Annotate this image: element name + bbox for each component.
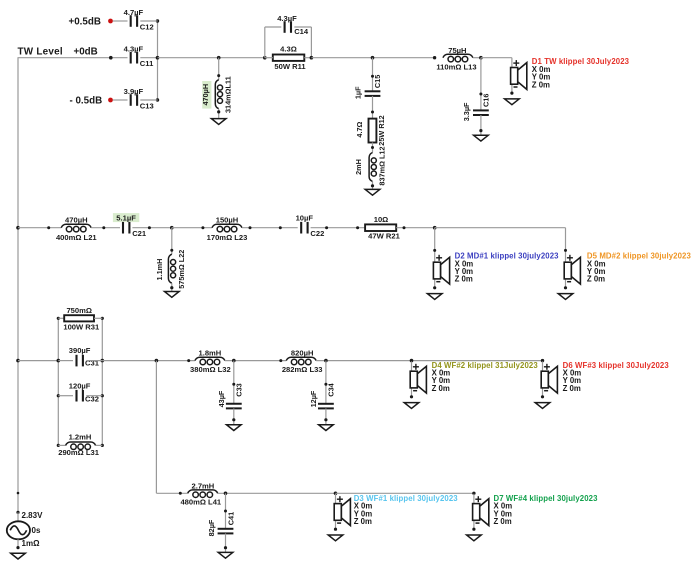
speaker D4	[404, 361, 538, 409]
wire	[480, 58, 482, 111]
svg-text:4.3µF: 4.3µF	[124, 45, 144, 54]
wire cap rail	[157, 21, 159, 100]
wire	[434, 228, 436, 253]
svg-text:480mΩ L41: 480mΩ L41	[180, 497, 221, 506]
svg-text:2mH: 2mH	[354, 159, 363, 175]
svg-text:1mΩ: 1mΩ	[22, 539, 41, 548]
wire	[310, 27, 312, 58]
svg-text:C34: C34	[327, 382, 336, 396]
node	[170, 249, 173, 252]
node	[279, 359, 282, 362]
junction	[57, 394, 60, 397]
voltage source V1	[7, 511, 43, 548]
wire	[140, 20, 157, 22]
inductor L11	[201, 76, 232, 113]
node	[47, 226, 50, 229]
wire	[156, 492, 187, 494]
wire	[480, 115, 482, 135]
node	[371, 184, 374, 187]
wire	[140, 57, 157, 59]
wire	[94, 317, 102, 319]
node	[403, 226, 406, 229]
ground	[11, 553, 26, 559]
junction	[57, 359, 61, 363]
svg-text:2.83V: 2.83V	[22, 511, 44, 520]
svg-text:1.2mH: 1.2mH	[69, 432, 92, 441]
junction	[263, 56, 267, 60]
capacitor C11	[124, 45, 154, 69]
wire	[372, 96, 374, 119]
svg-text:290mΩ L31: 290mΩ L31	[58, 448, 99, 457]
svg-text:- 0.5dB: - 0.5dB	[70, 95, 103, 106]
speaker D2	[427, 252, 559, 300]
svg-text:400mΩ L21: 400mΩ L21	[56, 233, 97, 242]
capacitor C33	[217, 383, 244, 408]
wire	[311, 227, 366, 229]
wire	[396, 227, 435, 229]
inductor L41	[180, 481, 221, 506]
junction	[433, 226, 437, 230]
svg-text:314mΩL11: 314mΩL11	[223, 76, 232, 113]
speaker D5	[558, 252, 691, 300]
svg-text:C14: C14	[294, 27, 309, 36]
svg-text:150µH: 150µH	[216, 215, 239, 224]
wire	[372, 182, 374, 190]
wire	[132, 227, 171, 229]
wire	[218, 58, 220, 80]
junction	[101, 394, 104, 397]
ground	[165, 292, 180, 298]
svg-text:1.8mH: 1.8mH	[199, 348, 222, 357]
junction	[156, 56, 160, 60]
wire	[113, 99, 128, 101]
svg-text:43µF: 43µF	[217, 390, 226, 407]
wire	[336, 492, 474, 494]
svg-text:4.7Ω: 4.7Ω	[355, 121, 364, 137]
svg-text:1µF: 1µF	[354, 86, 363, 99]
wire	[316, 360, 411, 362]
node	[371, 75, 374, 78]
node	[433, 249, 436, 252]
inductor L23	[207, 215, 248, 242]
svg-text:2.7mH: 2.7mH	[192, 481, 215, 490]
svg-text:C33: C33	[235, 383, 244, 396]
svg-text:C16: C16	[482, 94, 491, 107]
svg-text:10µF: 10µF	[296, 214, 314, 223]
node -0.5dB terminal	[108, 98, 113, 103]
junction	[324, 359, 328, 363]
inductor L32	[190, 348, 231, 374]
node	[249, 226, 252, 229]
wire	[18, 227, 61, 229]
svg-text:390µF: 390µF	[69, 346, 91, 355]
wire	[412, 360, 543, 362]
wire	[113, 20, 128, 22]
wire	[86, 395, 102, 397]
capacitor C32	[69, 381, 99, 403]
wire	[18, 57, 128, 59]
node	[541, 359, 544, 362]
svg-text:47W R21: 47W R21	[368, 231, 400, 240]
ground	[365, 189, 380, 195]
junction	[156, 98, 159, 101]
svg-text:170mΩ L23: 170mΩ L23	[207, 233, 248, 242]
wire	[435, 227, 566, 229]
wire	[265, 26, 282, 28]
node	[187, 359, 190, 362]
capacitor C12	[124, 8, 154, 32]
junction	[155, 359, 159, 363]
junction	[156, 19, 159, 22]
junction	[371, 56, 375, 60]
wire	[171, 283, 173, 291]
svg-text:Z 0m: Z 0m	[455, 275, 473, 284]
node	[217, 74, 220, 77]
node	[356, 226, 359, 229]
svg-text:100W R31: 100W R31	[63, 322, 100, 331]
inductor L31	[58, 432, 99, 457]
node +0.5dB terminal	[108, 19, 113, 24]
wire	[58, 444, 65, 446]
node	[201, 226, 204, 229]
svg-text:575mΩ L22: 575mΩ L22	[177, 250, 186, 289]
svg-text:C22: C22	[310, 229, 324, 238]
wire	[102, 360, 195, 362]
svg-text:C21: C21	[132, 229, 147, 238]
svg-text:+0.5dB: +0.5dB	[69, 16, 101, 27]
node	[324, 418, 327, 421]
svg-text:4.7µF: 4.7µF	[124, 8, 144, 17]
node	[232, 418, 235, 421]
svg-text:Z 0m: Z 0m	[532, 80, 550, 89]
wire drop to row 4	[155, 361, 157, 494]
node	[16, 511, 19, 514]
junction	[101, 317, 104, 320]
wire	[58, 360, 73, 362]
node	[371, 146, 374, 149]
svg-text:Z 0m: Z 0m	[587, 275, 605, 284]
capacitor C15	[354, 75, 382, 99]
resistor R11	[273, 45, 307, 71]
node	[472, 492, 475, 495]
svg-text:4.3Ω: 4.3Ω	[280, 45, 297, 54]
wire	[171, 228, 173, 255]
svg-text:470µH: 470µH	[201, 84, 210, 106]
capacitor C31	[69, 346, 100, 368]
junction	[334, 492, 338, 496]
resistor R21	[365, 215, 401, 240]
ground	[319, 425, 334, 431]
svg-text:0s: 0s	[32, 526, 41, 535]
wire	[225, 533, 227, 552]
svg-text:470µH: 470µH	[65, 215, 88, 224]
ground	[218, 552, 233, 558]
node	[279, 226, 282, 229]
junction	[57, 317, 60, 320]
wire	[265, 57, 273, 59]
wire	[294, 26, 311, 28]
wire	[304, 57, 311, 59]
wire	[242, 227, 298, 229]
junction	[232, 359, 236, 363]
wire	[225, 493, 227, 529]
svg-text:C13: C13	[140, 102, 154, 111]
wire	[91, 227, 120, 229]
capacitor C13	[124, 87, 154, 111]
node	[148, 226, 151, 229]
svg-text:4.3µF: 4.3µF	[277, 14, 297, 23]
wire	[325, 408, 327, 424]
wire	[18, 360, 58, 362]
svg-text:120µF: 120µF	[69, 381, 91, 390]
ground	[211, 119, 226, 125]
speaker D6	[535, 361, 669, 409]
svg-text:Z 0m: Z 0m	[354, 517, 372, 526]
svg-text:Z 0m: Z 0m	[563, 384, 581, 393]
svg-text:837mΩ L12: 837mΩ L12	[378, 146, 387, 185]
node	[217, 110, 220, 113]
node	[224, 510, 227, 513]
node	[102, 226, 105, 229]
wire	[325, 361, 327, 404]
junction	[410, 359, 414, 363]
wire	[140, 99, 157, 101]
wire	[311, 57, 434, 59]
wire	[218, 109, 220, 119]
svg-text:380mΩ L32: 380mΩ L32	[190, 365, 231, 374]
node	[17, 492, 20, 495]
svg-text:+0dB: +0dB	[74, 46, 98, 57]
wire	[172, 227, 212, 229]
inductor L13	[436, 46, 476, 71]
junction	[16, 226, 20, 230]
node	[324, 383, 327, 386]
ground	[227, 425, 242, 431]
inductor L12	[354, 146, 387, 185]
wire	[233, 408, 235, 424]
node	[224, 546, 227, 549]
svg-text:12µF: 12µF	[309, 390, 318, 407]
inductor L21	[56, 215, 97, 242]
wire	[372, 58, 374, 92]
node	[170, 286, 173, 289]
node	[433, 56, 436, 59]
inductor L33	[282, 348, 323, 374]
wire	[372, 143, 374, 153]
svg-text:3.3µF: 3.3µF	[462, 102, 471, 121]
wire	[565, 228, 567, 253]
junction	[170, 226, 174, 230]
svg-text:25W R12: 25W R12	[377, 115, 386, 145]
node	[16, 546, 19, 549]
speaker D7	[467, 494, 598, 541]
speaker D3	[328, 494, 458, 541]
capacitor C16	[462, 94, 490, 122]
svg-text:Z 0m: Z 0m	[494, 517, 512, 526]
wire block left	[57, 318, 59, 445]
capacitor C41	[207, 512, 236, 537]
junction	[101, 359, 105, 363]
svg-text:10Ω: 10Ω	[374, 215, 389, 224]
wire	[86, 360, 102, 362]
capacitor C14	[277, 14, 309, 36]
node	[325, 226, 328, 229]
svg-text:C12: C12	[140, 23, 154, 32]
resistor R31	[63, 306, 100, 331]
wire block right	[101, 318, 103, 445]
node	[479, 129, 482, 132]
svg-text:C41: C41	[227, 512, 236, 525]
capacitor C22	[296, 214, 325, 238]
svg-text:820µH: 820µH	[291, 348, 314, 357]
speaker D1	[505, 57, 630, 105]
node	[179, 492, 182, 495]
junction	[217, 56, 221, 60]
junction	[479, 56, 483, 60]
capacitor C21	[113, 213, 147, 238]
svg-text:C15: C15	[373, 75, 382, 88]
wire	[473, 57, 481, 59]
svg-text:110mΩ L13: 110mΩ L13	[436, 62, 476, 71]
svg-text:750mΩ: 750mΩ	[66, 306, 92, 315]
node	[564, 249, 567, 252]
resistor R12	[355, 115, 386, 145]
wire	[233, 361, 235, 404]
wire	[158, 57, 265, 59]
svg-text:3.9µF: 3.9µF	[124, 87, 144, 96]
svg-text:Z 0m: Z 0m	[432, 384, 450, 393]
node	[232, 383, 235, 386]
svg-text:5.1µF: 5.1µF	[116, 214, 136, 223]
svg-text:75µH: 75µH	[448, 46, 466, 55]
svg-text:1.1mH: 1.1mH	[155, 259, 164, 281]
ground	[474, 135, 489, 141]
wire	[225, 360, 286, 362]
junction	[57, 444, 60, 447]
node	[479, 93, 482, 96]
wire	[218, 492, 336, 494]
wire	[96, 444, 103, 446]
wire	[58, 317, 64, 319]
wire	[481, 57, 512, 59]
junction	[16, 359, 20, 363]
junction	[310, 56, 314, 60]
wire left rail	[17, 58, 19, 513]
inductor L22	[155, 250, 186, 289]
svg-text:TW Level: TW Level	[18, 46, 63, 57]
svg-text:82µF: 82µF	[207, 519, 216, 536]
capacitor C34	[309, 382, 336, 408]
node	[371, 111, 374, 114]
wire	[264, 27, 266, 58]
junction	[224, 492, 228, 496]
wire	[58, 395, 73, 397]
junction	[109, 56, 113, 60]
svg-text:50W R11: 50W R11	[274, 62, 306, 71]
svg-text:282mΩ L33: 282mΩ L33	[282, 365, 323, 374]
svg-text:C11: C11	[140, 59, 154, 68]
junction	[101, 444, 104, 447]
